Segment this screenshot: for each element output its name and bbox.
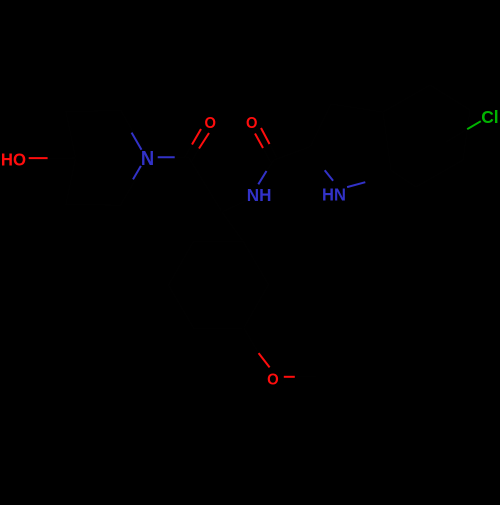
- methoxy O-CH3 carbon half: [295, 375, 317, 378]
- svg-text:NH: NH: [247, 185, 272, 206]
- wedge Calpha-Namide (drawn in carbon black): [222, 198, 252, 212]
- bond N1-C7a nitrogen half (blue): [347, 182, 365, 187]
- indole benzene ring: [383, 85, 470, 187]
- label O2 (indole amide carbonyl oxygen): [246, 115, 257, 133]
- carbonyl C1 black halves of double bond: [185, 145, 200, 162]
- svg-text:HO: HO: [1, 149, 26, 170]
- svg-text:N: N: [141, 148, 154, 170]
- svg-text:O: O: [246, 115, 257, 133]
- bond C2'-N(H) nitrogen half (blue): [258, 171, 266, 184]
- label O1 (piperidine amide carbonyl oxygen): [205, 115, 216, 133]
- bond indoleC2-N1 nitrogen half (blue): [325, 170, 333, 181]
- bond C5-Cl chlorine half (green): [467, 121, 481, 129]
- svg-text:HN: HN: [322, 184, 346, 205]
- invisible carbon skeleton: piperidine ring: [48, 85, 470, 377]
- bond HO-C4 oxygen half (red): [29, 157, 48, 159]
- indole five-ring carbon bonds: [310, 104, 391, 170]
- label HN (indole ring nitrogen): [322, 184, 346, 205]
- bond N-C6 nitrogen half (blue, down-left): [133, 166, 141, 180]
- C2'-N amide black half above blue: [267, 160, 275, 171]
- carbonyl C2' black halves of double bond: [263, 144, 277, 162]
- chain C1-Calpha: [189, 158, 222, 212]
- wire C4-O(H) carbon half: [48, 157, 76, 159]
- methoxy aryl-O carbon half: [244, 328, 259, 353]
- double bond C2'=O2 oxygen halves (red): [255, 128, 270, 148]
- svg-text:O: O: [205, 115, 216, 133]
- wire N-C1 carbon half: [175, 156, 189, 159]
- svg-text:O: O: [267, 371, 279, 389]
- label O (methoxy oxygen): [267, 371, 279, 389]
- svg-text:Cl: Cl: [481, 107, 498, 127]
- double bond C1=O1 oxygen halves (red): [192, 129, 209, 149]
- label HO (hydroxyl): [1, 149, 26, 170]
- chain Calpha-ipso: [222, 212, 243, 241]
- bond N-C2 nitrogen half (blue, up-left): [132, 133, 142, 150]
- phenyl ring: [169, 241, 269, 328]
- label NH (amide nitrogen): [247, 185, 272, 206]
- bond N-C1 nitrogen half (blue, right): [158, 156, 175, 158]
- label N (piperidine nitrogen): [141, 148, 154, 170]
- label Cl (chlorine): [481, 107, 498, 127]
- C2'-indole C2: [274, 147, 310, 160]
- Cl bond carbon half: [445, 129, 467, 142]
- bond O-CH3 oxygen half (red): [284, 376, 295, 378]
- bond aryl-O oxygen half (red): [259, 353, 270, 367]
